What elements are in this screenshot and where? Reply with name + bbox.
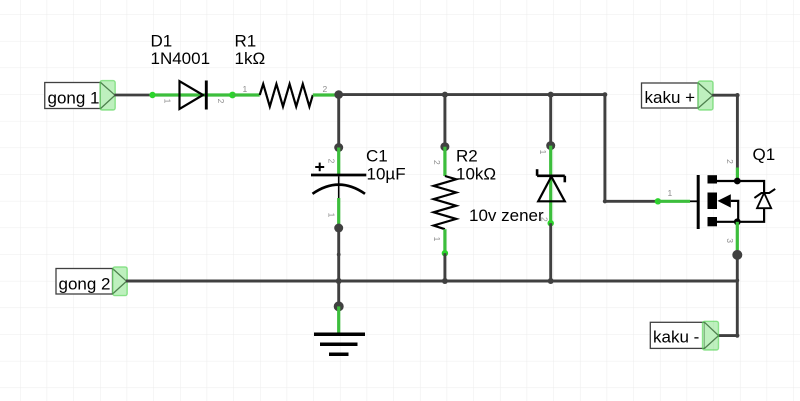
wire rail to R2 [443,95,446,147]
wire C1 pin1 lead [337,198,340,225]
node Q1 gate pin [655,198,661,204]
wire Q1 gate lead [658,200,698,203]
wire gong1 to D1 [115,94,153,97]
node Q1 source wire end [732,250,742,260]
svg-text:1: 1 [432,237,442,242]
zener pin number 2 [539,217,549,222]
svg-text:C1: C1 [366,147,388,166]
svg-text:gong 1: gong 1 [48,89,100,108]
D1 pin number 2 [216,99,226,104]
node corner kaku- [735,334,739,338]
junction bottom rail / C1-ground [336,278,342,284]
svg-text:2: 2 [432,160,442,165]
capacitor C1 [311,163,366,198]
wire R2 pin2 lead [443,147,446,176]
svg-text:3: 3 [725,238,735,243]
node ground wire end [334,301,344,311]
svg-text:1: 1 [243,84,248,94]
svg-text:gong 2: gong 2 [59,274,111,293]
wire kaku+ to Q1 drain [712,95,737,167]
node R2 pin1 [442,250,448,256]
diode D1 [180,81,207,110]
svg-text:D1: D1 [151,32,173,51]
svg-text:2: 2 [326,159,336,164]
R2 label [456,147,496,184]
svg-text:2: 2 [725,159,735,164]
svg-text:R2: R2 [456,147,478,166]
wire ground pin lead [337,306,340,332]
node R2 pin2 [440,142,449,151]
net label gong 1 [45,81,115,110]
wire zener to bottom rail [549,223,552,281]
wire source to kaku- [718,255,737,336]
node zener pin2 [548,220,554,226]
svg-text:10µF: 10µF [367,165,406,184]
Q1 pin number 3 [725,238,735,243]
zener diode D2 10v [537,169,565,201]
wire zener pin leads (green) [549,146,552,224]
wire bottom rail [126,280,737,283]
svg-text:1: 1 [538,150,548,155]
zener value label [469,206,544,225]
junction bottom rail / zener [548,278,554,284]
C1 pin number 2 [326,159,336,164]
net label kaku + [642,81,714,110]
svg-text:2: 2 [216,99,226,104]
junction bottom rail / R2 [442,278,448,284]
wire rail to C1 [337,95,340,148]
junction top rail / R2 [442,92,448,98]
node C1 pin1 [334,224,343,233]
R1 pin number 1 [243,84,248,94]
R1 label [235,32,266,68]
wire Q1 source lead [736,222,739,250]
D1 label [151,32,211,68]
node Q1 source [734,218,741,225]
resistor R1 [260,84,313,107]
C1 pin number 1 [326,213,336,218]
C1 label [366,147,406,184]
wire top rail [336,93,605,96]
svg-text:10kΩ: 10kΩ [456,165,496,184]
node bendpoint kaku+ corner [735,93,739,97]
Q1 pin number 2 [725,159,735,164]
node gate bendpoint [603,199,607,203]
transistor Q1 [697,175,776,229]
svg-text:1kΩ: 1kΩ [235,49,266,68]
svg-text:1N4001: 1N4001 [151,49,211,68]
wire rail to zener [549,95,552,146]
node C1 pin2 [334,143,343,152]
wire R1 pin2 lead [313,93,336,96]
node D1 pin1 [149,92,155,98]
wire gate row to Q1 [605,200,658,203]
wire R2 to bottom rail [443,253,446,281]
wire Q1 drain lead [736,168,739,182]
Q1 pin number 1 [668,188,673,198]
net label gong 2 [56,267,127,296]
wire C1 pin2 lead [337,148,340,176]
junction top rail / C1 [334,90,343,99]
wire R2 pin1 lead [443,229,446,253]
node zener pin1 [546,141,555,150]
node bendpoint below C1 [337,253,341,257]
node bendpoint at bottom rail right [735,279,739,283]
net label kaku - [650,321,718,350]
wire rail down to gate row [603,95,606,202]
R2 pin number 2 [432,160,442,165]
node top rail end [603,92,608,97]
wire R1 pin1 lead [233,93,260,96]
svg-text:1: 1 [326,213,336,218]
Q1 label [753,145,776,164]
R1 pin number 2 [323,84,328,94]
svg-text:R1: R1 [235,32,257,51]
resistor R2 [434,176,457,229]
D1 pin number 1 [163,99,173,104]
node Q1 drain [734,178,741,185]
zener pin number 1 [538,150,548,155]
svg-text:10v zener: 10v zener [469,206,544,225]
junction top rail / zener [548,92,554,98]
svg-text:kaku -: kaku - [653,328,699,347]
svg-text:2: 2 [323,84,328,94]
svg-text:1: 1 [163,99,173,104]
svg-text:kaku +: kaku + [645,88,696,107]
R2 pin number 1 [432,237,442,242]
wire C1 to bottom rail [337,228,340,306]
ground symbol [314,334,365,354]
wire D1 pin leads (green) [153,93,233,96]
node D1 pin2 [229,92,236,99]
svg-text:Q1: Q1 [753,145,776,164]
svg-text:1: 1 [668,188,673,198]
